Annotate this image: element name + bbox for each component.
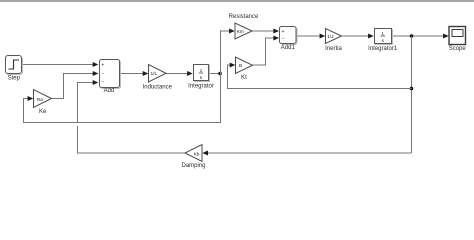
svg-text:Add1: Add1 (281, 45, 296, 51)
svg-text:Km: Km (237, 29, 244, 35)
svg-text:Kt: Kt (241, 75, 247, 81)
wire bottom to Damping input (202, 151, 411, 156)
svg-text:Integrator: Integrator (188, 83, 214, 89)
svg-text:+: + (282, 29, 285, 35)
toolbar edge strip (0, 0, 474, 2)
sum block Add1 (280, 27, 298, 52)
junction current node (218, 72, 222, 76)
wire Ke gain to Add input2 (52, 71, 99, 99)
gain Ke Ra (34, 90, 52, 116)
svg-text:Inductance: Inductance (143, 85, 173, 91)
wire Add1 to Inertia (296, 34, 325, 39)
wire speed feedback left to B gain (228, 63, 412, 89)
svg-text:1/J: 1/J (327, 34, 334, 40)
wire Inertia to Integrator1 (342, 34, 374, 39)
gain Resistance Km (229, 14, 259, 39)
block Step (6, 56, 23, 82)
wire Step to Add (22, 62, 98, 67)
wire speed junction down right side (411, 36, 413, 153)
wire Km to Add1 input1 (252, 29, 279, 34)
svg-text:+: + (101, 63, 104, 69)
svg-text:Resistance: Resistance (229, 14, 259, 20)
wire Inductance to Integrator (166, 71, 193, 76)
wire Integrator to junction (209, 73, 221, 75)
svg-text:Integrator1: Integrator1 (368, 46, 398, 52)
wire Add to Inductance (119, 71, 148, 76)
svg-text:Inertia: Inertia (325, 46, 342, 52)
gain Kt B (236, 57, 253, 81)
junction speed node (410, 34, 414, 38)
block Scope (449, 27, 467, 53)
svg-text:−: − (282, 36, 285, 42)
svg-text:Ra: Ra (37, 97, 43, 103)
wire current feedback junction down-left-up to Ke gain (24, 74, 221, 123)
block Integrator1 1/s (368, 29, 398, 53)
wire Integrator1 to Scope (392, 34, 449, 39)
wire junction up to Km gain (221, 29, 235, 74)
gain Damping Kb (points left) (181, 145, 205, 170)
wire Damping output left and up to Add input3 (with crossover gap) (78, 80, 186, 153)
gain Inductance 1/L (143, 65, 173, 91)
svg-text:Ke: Ke (39, 109, 47, 115)
svg-text:Scope: Scope (449, 46, 467, 52)
junction speed feedback node (410, 87, 414, 91)
gain Inertia 1/J (325, 29, 342, 53)
svg-text:−: − (102, 71, 105, 77)
svg-text:−: − (102, 79, 105, 85)
block Integrator 1/s (188, 65, 214, 90)
svg-text:1/L: 1/L (150, 71, 157, 77)
svg-text:Kb: Kb (194, 151, 200, 157)
wire B gain up to Add1 input2 (253, 36, 280, 66)
svg-text:Step: Step (8, 75, 21, 81)
svg-text:Damping: Damping (181, 163, 205, 169)
svg-text:B: B (239, 63, 242, 69)
sum block Add (100, 60, 121, 95)
svg-text:Add: Add (104, 88, 115, 94)
